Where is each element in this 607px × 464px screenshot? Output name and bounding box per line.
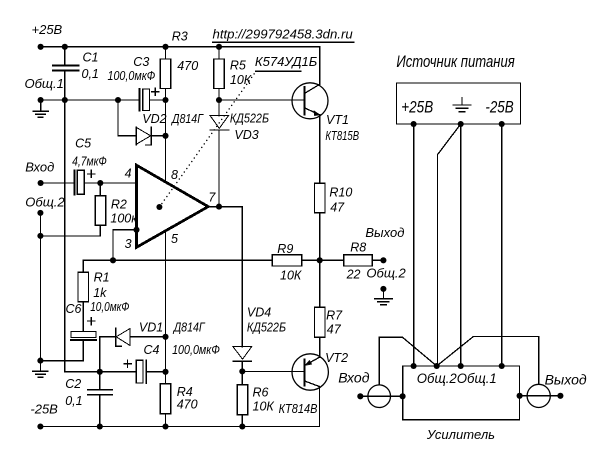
plus sign C5	[88, 170, 95, 177]
svg-text:VD1: VD1	[139, 321, 163, 335]
node output ground terminal	[380, 286, 386, 292]
svg-text:47: 47	[327, 323, 342, 337]
junction output node	[317, 257, 323, 263]
wire C1 top	[64, 47, 66, 65]
diode VD3	[218, 100, 220, 116]
node pin 3	[133, 227, 139, 233]
svg-text:R3: R3	[172, 29, 188, 43]
junction pin5 / C4	[162, 369, 168, 375]
wire C5 to op-amp pin 4	[84, 182, 136, 184]
capacitor C3	[138, 89, 140, 111]
power supply box	[397, 83, 521, 124]
op-amp center dot	[156, 204, 162, 210]
wire VT2 base	[242, 370, 304, 372]
svg-text:КТ815В: КТ815В	[325, 129, 359, 143]
net -25V bottom rail	[40, 426, 319, 428]
node amp Общ.1	[458, 363, 464, 369]
plus sign C4	[124, 360, 131, 367]
svg-text:R7: R7	[326, 308, 343, 322]
junction R2 top	[97, 180, 103, 186]
resistor R1	[82, 260, 84, 331]
wire R3 to VD2 node	[165, 100, 167, 136]
svg-text:R5: R5	[230, 59, 246, 73]
svg-text:C6: C6	[66, 302, 82, 316]
svg-text:C3: C3	[133, 55, 149, 69]
svg-text:5: 5	[171, 232, 178, 246]
url underline	[213, 41, 354, 43]
input jack circle	[368, 385, 391, 408]
junction R3 bottom	[162, 97, 168, 103]
svg-text:10,0мкФ: 10,0мкФ	[90, 300, 129, 314]
capacitor C2	[88, 390, 112, 395]
svg-text:Общ.1: Общ.1	[457, 370, 497, 386]
svg-text:R6: R6	[253, 386, 269, 400]
svg-text:К574УД1Б: К574УД1Б	[255, 55, 317, 69]
resistor R2	[99, 183, 101, 236]
node amp +25	[411, 363, 417, 369]
node psu -25	[499, 121, 505, 127]
junction rail / ground bus	[62, 97, 68, 103]
svg-text:Усилитель: Усилитель	[426, 427, 495, 442]
ground symbol output	[375, 289, 392, 305]
wire output jack	[520, 395, 561, 397]
svg-text:R1: R1	[94, 271, 110, 285]
svg-text:1k: 1k	[93, 286, 107, 300]
svg-text:R2: R2	[111, 198, 127, 212]
node psu +25	[411, 121, 417, 127]
junction R5 bottom / VT1 base	[216, 97, 222, 103]
svg-text:Общ.2: Общ.2	[417, 370, 457, 386]
resistor R9	[272, 255, 302, 266]
wire C2 bottom	[99, 395, 101, 427]
junction VD2 cathode node	[162, 133, 168, 139]
junction rail / R6	[239, 423, 245, 429]
junction top rail / R5	[216, 44, 222, 50]
net feedback rail	[83, 259, 272, 261]
svg-text:VD2: VD2	[142, 112, 166, 126]
node amp Общ.2	[434, 363, 440, 369]
svg-text:http://299792458.3dn.ru: http://299792458.3dn.ru	[213, 27, 353, 42]
junction VD4 / VT2 base	[239, 368, 245, 374]
wire op-amp pin 5 down	[165, 231, 167, 384]
dotted leader to type label	[159, 71, 256, 207]
leader underline	[256, 70, 301, 72]
resistor R4	[160, 384, 171, 414]
node -25V terminal	[37, 423, 43, 429]
ground symbol psu	[453, 98, 471, 112]
svg-text:-25В: -25В	[30, 402, 58, 417]
wire ground bus x=65	[65, 70, 100, 372]
amplifier box	[403, 366, 520, 420]
junction rail / C2	[97, 423, 103, 429]
svg-text:C5: C5	[75, 137, 91, 151]
wire R10 to output node	[319, 213, 321, 261]
wire op-amp pin 7 output	[208, 206, 242, 208]
zener VD2	[135, 127, 137, 145]
svg-text:КД522Б: КД522Б	[247, 320, 286, 334]
junction Общ.2 / C6 wire	[37, 358, 43, 364]
wire VT1 emitter	[319, 115, 321, 184]
capacitor C6	[71, 332, 96, 338]
node Общ.1 terminal	[38, 97, 44, 103]
svg-text:7: 7	[208, 190, 216, 204]
wire VD1 left down	[99, 337, 101, 372]
node Вход terminal	[38, 180, 44, 186]
svg-text:Вход: Вход	[338, 369, 370, 385]
resistor R8	[320, 259, 344, 261]
svg-text:-25В: -25В	[485, 98, 513, 116]
wire input sleeve to Общ.2	[379, 337, 437, 385]
wire psu +25 to amp	[413, 124, 415, 366]
node +25V terminal	[38, 44, 44, 50]
output jack circle	[527, 384, 550, 407]
svg-text:3: 3	[125, 237, 132, 251]
svg-text:C1: C1	[83, 51, 99, 65]
node input jack to amp	[400, 393, 406, 399]
node psu gnd	[458, 121, 464, 127]
junction Общ.2 / R2 wire	[37, 233, 43, 239]
svg-text:4,7мкФ: 4,7мкФ	[72, 154, 107, 168]
svg-text:470: 470	[177, 398, 198, 412]
junction rail / R4	[162, 423, 168, 429]
wire Общ.2 down	[39, 213, 41, 361]
node output jack left	[517, 393, 523, 399]
capacitor C5	[73, 170, 75, 194]
junction feedback / pin3	[110, 257, 116, 263]
plus sign C3	[152, 88, 159, 95]
wire op-amp pin 3	[113, 230, 137, 260]
resistor R6	[241, 371, 243, 384]
node input jack tip	[357, 393, 363, 399]
svg-text:КД522Б: КД522Б	[230, 112, 269, 126]
wire C6 bottom	[40, 341, 83, 361]
wire psu gnd to amp Общ.2	[437, 124, 460, 366]
svg-text:10К: 10К	[280, 269, 302, 283]
svg-text:0,1: 0,1	[82, 67, 99, 81]
ground symbol Общ.2 lower	[33, 361, 48, 378]
svg-text:VT1: VT1	[326, 113, 349, 127]
svg-text:Вход: Вход	[25, 159, 54, 174]
wire input	[41, 182, 74, 184]
wire VT1 collector	[319, 47, 321, 85]
node Общ.2 terminal	[37, 210, 43, 216]
svg-text:10К: 10К	[253, 400, 275, 414]
svg-text:Д814Г: Д814Г	[170, 112, 204, 126]
net +25V top rail	[41, 46, 320, 48]
svg-text:8: 8	[171, 168, 178, 182]
resistor R10	[315, 183, 326, 213]
transistor VT1	[292, 83, 328, 119]
junction rail / VD2 branch	[115, 97, 121, 103]
wire R2 bottom to Общ.2	[40, 235, 100, 237]
zener VD1	[100, 336, 116, 338]
node output jack tip	[557, 393, 563, 399]
junction top rail / C1	[62, 44, 68, 50]
resistor R5	[218, 47, 220, 100]
svg-text:Общ.2: Общ.2	[25, 194, 65, 209]
svg-text:100,0мкФ: 100,0мкФ	[108, 69, 156, 83]
wire VT1 base	[219, 99, 304, 101]
svg-text:22: 22	[346, 267, 361, 281]
svg-text:+25В: +25В	[32, 22, 63, 37]
wire output sleeve to Общ.2	[437, 336, 539, 384]
wire VD2 branch	[118, 100, 136, 136]
junction top rail / R3	[162, 44, 168, 50]
svg-text:470: 470	[177, 59, 198, 73]
junction C2 top node	[97, 369, 103, 375]
transistor VT2	[292, 354, 328, 390]
svg-text:Общ.2: Общ.2	[366, 266, 406, 281]
svg-text:C2: C2	[65, 377, 81, 391]
op-amp U1 К574УД1Б	[137, 165, 209, 247]
node amp -25	[499, 363, 505, 369]
wire output column down	[241, 207, 243, 347]
svg-text:100к: 100к	[110, 212, 138, 226]
ground symbol Общ.1	[33, 100, 48, 117]
wire C2 top	[99, 372, 101, 390]
diode VD4	[233, 347, 252, 360]
svg-text:R9: R9	[277, 242, 293, 256]
resistor R3	[165, 47, 167, 100]
wire op-amp pin 8	[165, 136, 167, 183]
capacitor C1	[53, 65, 78, 70]
plus sign C6	[88, 317, 95, 324]
svg-text:47: 47	[330, 201, 345, 215]
svg-text:4: 4	[125, 167, 132, 181]
net Общ.1 rail	[41, 99, 166, 101]
svg-text:VT2: VT2	[325, 351, 348, 365]
junction pin7 / VD3	[216, 204, 222, 210]
svg-text:Общ.1: Общ.1	[25, 76, 64, 91]
svg-text:C4: C4	[144, 343, 160, 357]
wire input jack	[360, 395, 402, 397]
svg-text:0,1: 0,1	[65, 394, 82, 408]
svg-text:R10: R10	[329, 185, 352, 199]
svg-text:Д814Г: Д814Г	[172, 321, 206, 335]
svg-text:Выход: Выход	[365, 225, 404, 240]
wire psu gnd to amp Общ.1	[460, 124, 462, 366]
svg-text:Источник питания: Источник питания	[396, 53, 515, 71]
svg-text:Выход: Выход	[545, 371, 587, 387]
junction pin5 / VD1	[162, 334, 168, 340]
wire VD2 cathode	[151, 135, 165, 137]
node output terminal	[380, 257, 386, 263]
svg-text:VD3: VD3	[234, 128, 258, 142]
wire psu -25 to amp	[501, 124, 503, 366]
resistor R7	[319, 260, 321, 307]
svg-text:R8: R8	[350, 241, 366, 255]
svg-text:+25В: +25В	[401, 98, 433, 116]
svg-text:КТ814В: КТ814В	[279, 402, 318, 416]
svg-text:100,0мкФ: 100,0мкФ	[172, 343, 220, 357]
capacitor C4	[100, 371, 136, 373]
svg-text:VD4: VD4	[247, 306, 271, 320]
svg-text:10К: 10К	[230, 73, 252, 87]
